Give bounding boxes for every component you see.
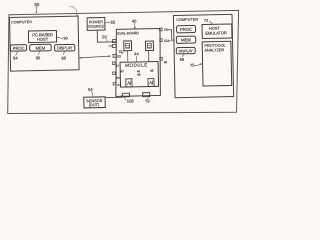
left tab A bbox=[112, 39, 116, 42]
proc box (right) bbox=[177, 25, 196, 32]
svg-text:(DUT): (DUT) bbox=[89, 102, 100, 107]
outer frame bbox=[8, 10, 239, 113]
svg-text:52B: 52B bbox=[127, 98, 134, 103]
svg-text:82: 82 bbox=[111, 20, 116, 25]
label 90 bbox=[57, 37, 63, 38]
leader to computer corner bbox=[69, 6, 77, 15]
label 84 bbox=[16, 51, 18, 55]
left tab E bbox=[113, 72, 116, 75]
svg-text:DISPLAY: DISPLAY bbox=[179, 49, 194, 53]
svg-text:55: 55 bbox=[164, 28, 168, 32]
module box bbox=[120, 62, 158, 88]
protocol analyzer box bbox=[202, 41, 232, 86]
svg-text:48: 48 bbox=[137, 73, 141, 77]
svg-text:SOURCE: SOURCE bbox=[88, 24, 104, 28]
label 82 bbox=[105, 21, 110, 23]
short arrow to tab B bbox=[109, 45, 112, 47]
bottom tab S2 bbox=[143, 93, 150, 97]
svg-text:47: 47 bbox=[120, 69, 124, 73]
svg-text:40: 40 bbox=[132, 19, 137, 24]
svg-text:56: 56 bbox=[164, 60, 168, 64]
component box 41 bbox=[124, 41, 132, 51]
mem box (left) bbox=[30, 44, 52, 51]
power source box bbox=[87, 17, 105, 30]
wire R1 to right computer bbox=[168, 30, 174, 41]
wire box2 to module bbox=[148, 51, 150, 62]
bottom tab S1 bbox=[123, 93, 130, 97]
svg-text:51: 51 bbox=[119, 50, 123, 54]
label 68 bbox=[182, 55, 184, 57]
power wire bbox=[97, 30, 116, 42]
svg-text:PROC: PROC bbox=[180, 27, 192, 32]
right tab R2 bbox=[160, 39, 162, 42]
sensor (dut) box bbox=[84, 97, 106, 108]
proc box (left) bbox=[10, 45, 26, 52]
display box (left) bbox=[54, 44, 74, 51]
left tab B bbox=[112, 44, 116, 47]
svg-text:54: 54 bbox=[88, 87, 93, 92]
svg-text:EMULATOR: EMULATOR bbox=[205, 30, 227, 35]
double arrow computer to tab C bbox=[80, 56, 111, 58]
svg-text:44: 44 bbox=[134, 51, 139, 56]
right tab R1 bbox=[160, 28, 162, 31]
svg-text:MODULE: MODULE bbox=[125, 62, 148, 67]
svg-text:84: 84 bbox=[13, 55, 18, 60]
svg-text:COMPUTER: COMPUTER bbox=[176, 18, 198, 22]
computer (left) box bbox=[10, 16, 80, 71]
svg-text:68: 68 bbox=[180, 57, 185, 62]
svg-text:57: 57 bbox=[116, 64, 120, 68]
label 88 bbox=[64, 51, 65, 55]
svg-text:53: 53 bbox=[117, 54, 121, 58]
wire box1 to module bbox=[127, 51, 129, 62]
component box 45 bbox=[145, 41, 153, 51]
svg-text:HOST: HOST bbox=[37, 37, 49, 42]
computer (right) box bbox=[173, 14, 233, 97]
left tab C bbox=[113, 54, 116, 57]
svg-text:EVAL BOARD: EVAL BOARD bbox=[117, 31, 139, 35]
host emulator box bbox=[202, 24, 232, 39]
svg-text:61: 61 bbox=[117, 83, 121, 87]
svg-text:88: 88 bbox=[61, 55, 66, 60]
svg-text:86: 86 bbox=[36, 55, 41, 60]
svg-text:PROTOCOL: PROTOCOL bbox=[204, 43, 225, 47]
label 86 bbox=[38, 51, 40, 55]
svg-text:59: 59 bbox=[116, 76, 120, 80]
right tab R3 bbox=[160, 57, 162, 60]
svg-text:MEM: MEM bbox=[36, 45, 46, 50]
svg-text:MEM: MEM bbox=[181, 37, 191, 42]
left tab D bbox=[112, 62, 115, 65]
label 42 bbox=[121, 51, 124, 54]
svg-text:ANALYZER: ANALYZER bbox=[204, 48, 224, 52]
svg-text:90: 90 bbox=[63, 36, 67, 40]
pc-based host box bbox=[28, 30, 56, 42]
svg-text:COMPUTER: COMPUTER bbox=[11, 20, 32, 24]
display box (right) bbox=[176, 47, 195, 54]
sensor wire bbox=[105, 96, 121, 98]
mem box (right) bbox=[176, 36, 195, 43]
svg-text:50: 50 bbox=[102, 34, 107, 39]
svg-text:49: 49 bbox=[150, 69, 154, 73]
eval board box bbox=[114, 28, 161, 96]
svg-text:72: 72 bbox=[204, 18, 209, 23]
svg-text:PROC: PROC bbox=[13, 46, 25, 51]
left tab F bbox=[113, 82, 116, 85]
svg-text:DISPLAY: DISPLAY bbox=[57, 45, 73, 50]
